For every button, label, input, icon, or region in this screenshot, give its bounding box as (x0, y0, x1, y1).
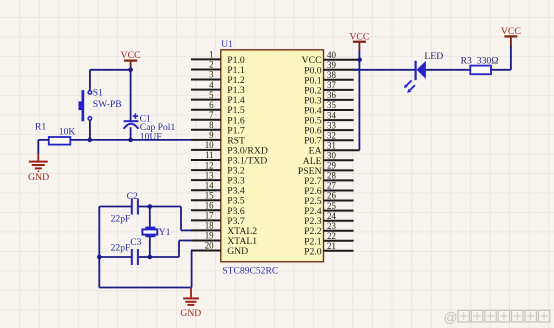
svg-text:6: 6 (209, 100, 214, 110)
svg-text:37: 37 (327, 80, 336, 90)
junction crystal top (148, 204, 153, 209)
wire node to switch branch (top horizontal) (90, 69, 131, 71)
svg-text:24: 24 (327, 211, 336, 221)
svg-text:22: 22 (327, 231, 336, 241)
svg-text:35: 35 (327, 100, 336, 110)
pin 6 P1.5 (191, 100, 245, 116)
pin 13 P3.3 (191, 170, 245, 186)
wire through crystal (149, 207, 151, 258)
wire bottom horizontal rail (99, 287, 191, 289)
watermark (444, 310, 550, 325)
wire GND pin down (191, 251, 193, 288)
svg-text:STC89C52RC: STC89C52RC (222, 265, 278, 276)
pin 5 P1.4 (191, 90, 245, 106)
svg-text:22pF: 22pF (111, 214, 131, 225)
ground symbol GND (crystal) (180, 288, 201, 320)
pin 15 P3.5 (191, 190, 245, 206)
svg-text:31: 31 (327, 140, 336, 150)
svg-text:23: 23 (327, 221, 336, 231)
svg-text:2: 2 (209, 60, 213, 70)
pin 25 P2.4 (304, 201, 354, 217)
pin 27 P2.6 (304, 181, 354, 197)
op-amp U1 : STC89C52RC microcontroller body (221, 50, 324, 262)
pin 3 P1.2 (191, 70, 245, 86)
pin 7 P1.6 (191, 110, 245, 126)
svg-text:LED: LED (424, 51, 443, 62)
wire node down to capacitor C1 (130, 70, 132, 121)
resistor R3 330ohm (461, 55, 499, 74)
svg-text:GND: GND (180, 308, 201, 319)
svg-text:10: 10 (205, 140, 214, 150)
pin 2 P1.1 (191, 60, 245, 76)
pin 9 RST (191, 130, 245, 146)
junction C1/RST rail (128, 138, 133, 143)
svg-text:@: @ (444, 310, 458, 325)
svg-text:12: 12 (205, 160, 214, 170)
svg-text:3: 3 (209, 70, 214, 80)
power symbol VCC (LED) (501, 26, 521, 37)
pin 19 XTAL1 (191, 231, 257, 247)
wire VCC down to pin40 and EA pin31 (358, 43, 360, 151)
svg-text:26: 26 (327, 191, 336, 201)
svg-text:17: 17 (205, 211, 214, 221)
wire R3 to VCC (491, 37, 511, 69)
pin 33 P0.6 (304, 120, 354, 136)
capacitor C3 22pF (111, 237, 142, 265)
wire R1 left down to ground (37, 140, 39, 154)
pin 34 P0.5 (304, 110, 354, 126)
pin 23 P2.2 (304, 221, 354, 237)
pin 29 PSEN (298, 161, 354, 177)
value label STC89C52RC (222, 265, 278, 276)
pin 8 P1.7 (191, 120, 245, 136)
svg-text:U1: U1 (221, 40, 233, 50)
svg-text:29: 29 (327, 161, 336, 171)
junction switch/RST rail (88, 138, 93, 143)
svg-text:R1: R1 (35, 122, 46, 133)
pin 16 P3.6 (191, 201, 245, 217)
pin 38 P0.1 (304, 70, 354, 86)
pin 22 P2.1 (304, 231, 354, 247)
svg-text:13: 13 (205, 170, 214, 180)
pin 37 P0.2 (304, 80, 354, 96)
svg-text:GND: GND (28, 172, 49, 183)
junction VCC/pin40 (357, 57, 362, 62)
pin 31 EA (309, 140, 360, 156)
svg-text:GND: GND (227, 246, 248, 257)
pin 32 P0.7 (304, 130, 354, 146)
node junction at VCC/C1 (128, 68, 133, 73)
pin 11 P3.1/TXD (191, 150, 267, 166)
wire GND to R1 left (38, 139, 49, 141)
capacitor C1 Cap Pol1 10UF (polarized) (124, 113, 176, 142)
svg-text:18: 18 (205, 221, 214, 231)
svg-text:22pF: 22pF (111, 243, 131, 254)
svg-text:40: 40 (327, 50, 336, 60)
svg-text:1: 1 (209, 50, 213, 60)
pin 12 P3.2 (191, 160, 245, 176)
wire left rail to C3 (99, 256, 131, 258)
pin 26 P2.5 (304, 191, 354, 207)
pin 20 GND (191, 241, 248, 257)
svg-text:20: 20 (205, 241, 214, 251)
switch S1 SW-PB (79, 88, 122, 122)
pin 10 P3.0/RXD (191, 140, 268, 156)
LED D1 (404, 51, 443, 93)
pin 14 P3.4 (191, 180, 245, 196)
svg-text:15: 15 (205, 190, 214, 200)
capacitor C2 22pF (111, 191, 138, 225)
wire LED to R3 (426, 69, 470, 71)
pin 4 P1.3 (191, 80, 245, 96)
svg-text:25: 25 (327, 201, 336, 211)
wire VCC stub down to node (130, 62, 132, 70)
crystal Y1 (142, 227, 170, 238)
svg-text:30: 30 (327, 151, 336, 161)
svg-text:C3: C3 (130, 237, 141, 248)
junction left rail / C3 (97, 255, 102, 260)
pin 35 P0.4 (304, 100, 354, 116)
svg-text:28: 28 (327, 171, 336, 181)
wire left rail to C2 (99, 206, 131, 208)
wire crystal top node to XTAL2 (150, 207, 192, 231)
pin 1 P1.0 (191, 50, 245, 66)
svg-text:C2: C2 (127, 191, 138, 202)
svg-text:Y1: Y1 (159, 227, 171, 238)
wire C1 bottom to RST rail (130, 127, 132, 140)
svg-text:33: 33 (327, 120, 336, 130)
power symbol VCC (reset circuit) (121, 50, 141, 61)
resistor R1 10K (35, 122, 75, 145)
wire left vertical rail (98, 207, 100, 288)
pin 36 P0.3 (304, 90, 354, 106)
wire C2 right to crystal node (139, 206, 150, 208)
svg-text:R3 330Ω: R3 330Ω (461, 55, 499, 66)
svg-text:P2.0: P2.0 (304, 246, 322, 257)
svg-text:32: 32 (327, 130, 336, 140)
junction crystal bottom (148, 255, 153, 260)
pin 21 P2.0 (304, 241, 354, 257)
svg-text:27: 27 (327, 181, 336, 191)
pin 40 VCC (302, 50, 360, 66)
pin 17 P3.7 (191, 211, 245, 227)
pin 18 XTAL2 (191, 221, 257, 237)
wire C3 right to crystal bottom node (139, 256, 150, 258)
svg-text:38: 38 (327, 70, 336, 80)
svg-text:8: 8 (209, 120, 214, 130)
svg-text:11: 11 (205, 150, 214, 160)
svg-text:19: 19 (205, 231, 214, 241)
pin 30 ALE (303, 151, 354, 167)
wire R1 right to RST pin (70, 139, 192, 141)
svg-text:S1: S1 (93, 88, 103, 99)
svg-text:10K: 10K (59, 127, 76, 138)
svg-text:4: 4 (209, 80, 214, 90)
svg-text:16: 16 (205, 201, 214, 211)
pin 24 P2.3 (304, 211, 354, 227)
svg-text:36: 36 (327, 90, 336, 100)
svg-text:7: 7 (209, 110, 214, 120)
wire down to switch S1 top (89, 70, 91, 91)
wire P0.0 to LED (354, 69, 415, 71)
ground symbol GND (reset) (28, 154, 49, 183)
svg-text:SW-PB: SW-PB (93, 99, 122, 110)
svg-text:5: 5 (209, 90, 214, 100)
svg-text:34: 34 (327, 110, 336, 120)
designator U1 (221, 40, 233, 50)
pin 28 P2.7 (304, 171, 354, 187)
svg-text:14: 14 (205, 180, 214, 190)
pin 39 P0.0 (304, 60, 360, 76)
svg-text:21: 21 (327, 241, 336, 251)
wire switch bottom to RST rail (89, 120, 91, 139)
wire crystal bottom node to XTAL1 (150, 241, 192, 258)
svg-text:10UF: 10UF (140, 132, 162, 143)
power symbol VCC (pin 40) (349, 31, 369, 42)
svg-text:9: 9 (209, 130, 214, 140)
svg-text:39: 39 (327, 60, 336, 70)
